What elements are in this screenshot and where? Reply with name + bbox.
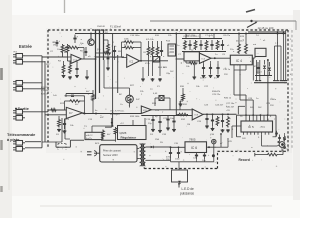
wire ic5 pin drops (246, 115, 268, 121)
resistor R11 (156, 46, 159, 56)
resistor R16 (186, 61, 198, 64)
svg-text:IC 6: IC 6 (191, 146, 197, 150)
terminal bars (255, 80, 287, 82)
wire ic4 route 3 (252, 58, 254, 81)
node rail top 2 (99, 29, 101, 31)
svg-text:sch régler: sch régler (110, 113, 120, 116)
svg-text:puissance: puissance (180, 192, 194, 196)
node rail join (95, 33, 101, 35)
capacitor C9b (202, 61, 205, 74)
dashed enclosure notch right (217, 151, 219, 168)
capacitor C19b (175, 147, 181, 160)
transformer TR1 (140, 143, 146, 166)
svg-text:12-15 ou 220: 12-15 ou 220 (258, 26, 274, 30)
capacitor C9 feedback (71, 95, 74, 96)
led D7 loop (172, 170, 188, 183)
svg-text:7805: 7805 (189, 138, 196, 142)
scan artifact fold top (64, 0, 66, 13)
op-amp U4 (66, 107, 82, 118)
wire q1 top (90, 33, 92, 39)
svg-text:100n: 100n (175, 159, 181, 161)
svg-text:Vers K7 Pistes: Vers K7 Pistes (110, 110, 125, 113)
svg-text:4k7 4k7: 4k7 4k7 (236, 41, 244, 43)
ground input stage 3 (75, 75, 79, 78)
capacitor C8 (256, 62, 259, 74)
scan artifact page edge 3 (0, 186, 2, 192)
wire left bus A (41, 57, 43, 147)
wire harness top link (275, 45, 282, 47)
wire filter rail taps (186, 34, 214, 39)
ground q1 (85, 70, 89, 79)
capacitor C7b (221, 40, 224, 50)
resistor R5 (69, 64, 72, 74)
connector J4 aux lower (13, 87, 25, 92)
ground ic3 (192, 76, 196, 79)
wire ps bottom drop (178, 162, 180, 170)
connector J8 telecommande lower (13, 147, 25, 152)
ground u6 3 (221, 129, 225, 132)
wire secondary top (145, 146, 160, 148)
wire u4 out (83, 113, 142, 115)
wire ic6 out (207, 146, 217, 148)
node rail top 1 (95, 29, 97, 31)
svg-text:C12 4u7: C12 4u7 (41, 90, 50, 92)
dashed enclosure top edge (48, 29, 288, 31)
ground c9c (209, 75, 213, 78)
resistor R6b (104, 40, 110, 53)
capacitor C17 (221, 114, 224, 127)
wire stage1 to stage2 (96, 56, 125, 58)
transistor Q3 (277, 141, 286, 149)
svg-text:4o47c: 4o47c (86, 138, 93, 140)
ground input stage 1 (62, 75, 66, 78)
capacitor C12 (172, 116, 175, 129)
wire u2 feedback loop (122, 42, 142, 61)
wire aux lower (25, 88, 45, 90)
resistor R7 feedback (124, 46, 135, 49)
ground c9b (202, 75, 206, 78)
label u6 caps (204, 105, 224, 107)
wire left bus B (44, 61, 46, 142)
svg-text:+9V: +9V (228, 141, 232, 143)
svg-text:1000u: 1000u (270, 99, 277, 101)
node u4 out (84, 113, 114, 115)
wire regulator left (105, 118, 113, 127)
wire u6 out (203, 113, 237, 115)
label vers k7 (110, 110, 125, 117)
wire sortie to amp (45, 114, 66, 116)
resistor R18 (245, 34, 248, 55)
capacitor C20 (195, 153, 198, 160)
resistor R32 (114, 127, 117, 142)
op-amp U2 (127, 54, 140, 67)
label regulator 78xx (118, 126, 147, 140)
wire drop x65 (65, 118, 70, 139)
wire mains to transformer (137, 149, 139, 159)
wire q2 top (104, 60, 130, 95)
label u4 texts (41, 87, 50, 95)
resistor R14 (205, 40, 208, 50)
ground c4b (106, 67, 110, 70)
wire long drop x176 (175, 34, 177, 116)
capacitor C5 (188, 40, 191, 50)
resistor R1 (61, 44, 64, 54)
ground c12 (172, 129, 176, 132)
wire u2 out (140, 60, 168, 62)
capacitor C9d (216, 61, 219, 74)
node ic6 out (208, 146, 210, 148)
node u2 out (140, 60, 142, 62)
svg-text:F1 100mA: F1 100mA (110, 25, 121, 28)
wire secondary bottom (145, 159, 170, 161)
resistor R15 (216, 40, 219, 50)
wire filter top (182, 38, 222, 40)
capacitor C13 (151, 116, 154, 129)
diode D1 (263, 60, 266, 75)
ground c9d (216, 75, 220, 78)
label LED arrow (178, 183, 180, 188)
svg-text:2200P: 2200P (200, 78, 207, 80)
label c11 (163, 118, 174, 120)
relay K1 (168, 44, 176, 56)
label r17 (236, 41, 244, 43)
node ps bottom blob (212, 154, 215, 157)
ground u4 2 (63, 130, 67, 133)
svg-text:W02: W02 (256, 72, 261, 74)
svg-text:C10 1u: C10 1u (223, 69, 231, 71)
scan tone wash (46, 28, 292, 170)
ic opto box B1 (85, 132, 102, 140)
wire record left (255, 153, 267, 157)
connector output jack (212, 139, 216, 147)
wire drop x62 (61, 118, 63, 142)
svg-text:IC 4: IC 4 (236, 59, 242, 63)
capacitor C21 (203, 153, 206, 160)
wire ic4 route 1 (234, 70, 246, 115)
svg-text:C16 100n: C16 100n (130, 35, 140, 37)
ground u2 stage 2 (151, 78, 155, 81)
resistor R22 sortie (50, 109, 57, 112)
svg-text:a4LC2: a4LC2 (86, 135, 93, 137)
ground u2 stage 3 (158, 78, 162, 81)
wire ic6 plus rail (216, 133, 228, 147)
wire harness 1 (256, 60, 258, 81)
transistor Q2 (126, 95, 134, 103)
mains box (100, 145, 137, 162)
label right texts (253, 43, 279, 47)
capacitor C2 (75, 64, 78, 74)
wire u5 out (151, 109, 192, 111)
capacitor C9c (209, 61, 212, 74)
resistor R20 (58, 116, 61, 128)
capacitor C19 (165, 147, 172, 158)
resistor R6 (96, 52, 111, 55)
wire q2 bottom (129, 103, 131, 108)
node sortie bullet (15, 108, 17, 110)
wire u1 out (82, 58, 97, 60)
svg-text:25V: 25V (166, 159, 170, 161)
resistor R31 record (267, 153, 279, 156)
capacitor C6 (199, 40, 202, 50)
scan artifact page edge 2 (0, 140, 2, 150)
resistor R10 (151, 46, 154, 56)
svg-text:Prise de courant: Prise de courant (103, 149, 121, 152)
resistor R26 (182, 88, 185, 101)
capacitor C4b (107, 53, 110, 67)
capacitor C15 (205, 114, 208, 123)
node r17 rail (238, 33, 247, 35)
wire mains feed (150, 20, 296, 22)
resistor R27 (176, 113, 188, 116)
label 7805 (189, 138, 196, 142)
svg-text:R34 47k: R34 47k (212, 91, 221, 93)
capacitor C7 (210, 40, 213, 50)
svg-text:47k 10k: 47k 10k (146, 39, 155, 41)
ic IC5 (241, 121, 273, 132)
scan artifact page edge 1 (0, 68, 3, 80)
label Entree (19, 44, 32, 49)
svg-text:1M: 1M (187, 124, 190, 126)
svg-text:C27 10n: C27 10n (226, 103, 235, 105)
resistor R30 (283, 133, 286, 142)
label LED de (182, 187, 194, 191)
scan artifact diagonal (246, 10, 255, 13)
capacitor C4c (113, 46, 116, 60)
svg-text:Secteur 220V: Secteur 220V (103, 154, 118, 157)
wire sortie upper to amp (48, 109, 66, 111)
resistor R28 (216, 116, 219, 126)
ic IC4b aux box (255, 48, 266, 56)
svg-text:C7 4n7: C7 4n7 (205, 35, 213, 37)
label c9b (200, 78, 218, 80)
wire long drop x268 (267, 59, 269, 115)
wire rail drop 2 (99, 30, 101, 94)
svg-text:1M: 1M (53, 45, 56, 47)
diode D5 (151, 146, 154, 149)
wire telecommande lower (25, 146, 42, 149)
ground r26 (179, 101, 183, 106)
label puissance (180, 192, 194, 196)
svg-text:R24 22k: R24 22k (41, 87, 50, 89)
wire sortie upper (25, 110, 48, 112)
ground u6 2 (211, 126, 215, 131)
node harness (277, 33, 285, 35)
wire harness 5 (280, 46, 282, 81)
wire diode bottom (255, 75, 272, 77)
label a piste (7, 137, 20, 142)
node x176 top (175, 33, 177, 35)
svg-text:C8 47n: C8 47n (223, 35, 231, 37)
label mains voltage (258, 26, 274, 30)
dashed enclosure notch left (143, 163, 145, 169)
svg-text:R17 220k: R17 220k (186, 35, 196, 37)
resistor R12 (184, 40, 187, 50)
wire ic4 route 2 (240, 70, 253, 115)
wire top right corner (248, 31, 286, 33)
wire u4 top link (66, 94, 93, 98)
op-amp U6 (192, 109, 203, 120)
capacitor C16 (211, 114, 214, 126)
svg-text:25V: 25V (224, 74, 228, 76)
resistor R4 (62, 64, 65, 74)
capacitor C31 (272, 131, 278, 137)
svg-text:HG: HG (14, 52, 18, 54)
connector J7 telecommande (13, 141, 41, 146)
wire ic5 down (262, 135, 277, 146)
crystal X1 (155, 96, 170, 110)
svg-text:+5V: +5V (226, 110, 230, 112)
connector J3 aux upper (13, 81, 25, 86)
svg-text:R40 4k7: R40 4k7 (226, 106, 235, 108)
resistor R19 feedback (69, 100, 81, 103)
svg-text:+9(C): +9(C) (260, 126, 266, 128)
wire r4 top (64, 61, 78, 64)
wire ic3 out (211, 57, 230, 59)
label J1 (14, 52, 18, 54)
wire long drop x112 (112, 34, 114, 127)
value labels scatter (46, 26, 292, 145)
svg-text:Entrée: Entrée (19, 44, 32, 49)
resistor R17 (238, 34, 241, 55)
ground c11 (166, 127, 170, 130)
op-amp U1 (71, 54, 82, 63)
ground u4 1 (57, 129, 61, 132)
capacitor C18 (278, 135, 281, 142)
ic IC3 box (184, 52, 199, 61)
wire aux upper (25, 82, 42, 84)
wire ic3 gnd (193, 63, 195, 76)
label Telecommande (7, 132, 36, 137)
wire rail drop 3 (103, 30, 105, 61)
dashed detail telecommande (58, 144, 66, 151)
label R1 value (53, 42, 57, 47)
node rail top 3 (103, 29, 105, 31)
connector J5 sortie (13, 110, 25, 115)
svg-text:IC2: IC2 (130, 61, 134, 64)
svg-text:25V: 25V (270, 105, 274, 107)
wire harness 4 (277, 34, 279, 81)
resistor R3 (65, 46, 79, 53)
label filter values (183, 36, 201, 38)
svg-text:IC 5: IC 5 (248, 125, 254, 129)
wire telecommande staircase (56, 140, 116, 147)
label ic5 left (226, 103, 235, 112)
wire regulator top (133, 118, 145, 126)
wire entree upper to bus (25, 56, 42, 57)
label Sortie (18, 106, 30, 111)
dashed enclosure left edge (47, 30, 49, 149)
svg-text:R36 1k: R36 1k (224, 97, 232, 99)
op-amp U3 (199, 53, 211, 63)
svg-text:1N4148: 1N4148 (97, 26, 105, 28)
wire q3 links (277, 145, 282, 151)
label r9 values (146, 39, 155, 41)
wire +V rail (75, 33, 286, 35)
label fuse (110, 25, 121, 28)
switch box S2 (153, 57, 160, 63)
ground u2 stage 1 (141, 67, 145, 81)
wire u1 feedback (79, 48, 84, 60)
ground c13 (151, 129, 155, 132)
wire r9 gnd (149, 56, 161, 76)
wire ic5 left link (232, 126, 241, 138)
svg-text:C25 22n: C25 22n (212, 94, 221, 96)
transistor Q1 (88, 35, 94, 45)
dashed border echo right (291, 30, 293, 150)
wire ic4b link (252, 57, 255, 59)
capacitor C2b (85, 47, 88, 56)
node mains junction (250, 20, 296, 30)
wire ic5 pin stubs (244, 132, 269, 135)
capacitor C14 (158, 116, 161, 130)
ground u6 4 (226, 129, 230, 132)
svg-text:Record: Record (239, 158, 250, 162)
diode D2 (268, 62, 271, 75)
svg-text:BC: BC (119, 94, 122, 96)
resistor R33 (102, 130, 105, 141)
wire r9 rail (149, 41, 162, 46)
svg-text:Sortie: Sortie (18, 106, 30, 111)
svg-text:16V: 16V (242, 138, 246, 140)
label pin4 (267, 118, 269, 122)
label quartz freq (153, 93, 158, 95)
wire drop bottom link (42, 141, 62, 143)
svg-text:R25 1k: R25 1k (41, 93, 49, 95)
capacitor C10 (63, 119, 66, 129)
wire c19 top (160, 146, 171, 148)
resistor R21 (92, 90, 95, 114)
svg-text:IC2a: IC2a (145, 63, 150, 65)
label Record (239, 158, 250, 162)
resistor R8 feedback (124, 41, 135, 44)
ic IC6 (185, 142, 207, 153)
capacitor C1 (73, 35, 78, 44)
plug P1 (87, 151, 100, 156)
dashed enclosure notch bottom (144, 168, 217, 170)
capacitor C3 (160, 46, 163, 56)
capacitor C0 (56, 40, 61, 47)
ground c14 (158, 130, 162, 133)
label u4 r (86, 91, 90, 93)
ic IC4 (230, 55, 252, 65)
wire harness 7 (285, 30, 287, 81)
scan noise speckles (50, 28, 289, 168)
node ic3 out (214, 57, 216, 59)
resistor R9 (147, 46, 150, 56)
wire b1 top (92, 125, 114, 132)
svg-text:Régulateur: Régulateur (121, 136, 138, 140)
wire u1 in upper (63, 54, 72, 58)
wire mid bus (141, 115, 192, 117)
svg-text:L.E.D de: L.E.D de (182, 187, 194, 191)
resistor R29 (227, 116, 230, 128)
wire harness 2 (259, 60, 261, 81)
wire k1 out (176, 58, 185, 60)
wire harness 3 (274, 46, 276, 81)
switch S1 (247, 22, 258, 28)
wire filter bottom (182, 51, 226, 53)
label c20 (193, 158, 206, 163)
ground u6 1 (205, 124, 209, 129)
wire u4 feedback loop (65, 96, 85, 113)
wire entree to amp (42, 56, 68, 58)
node u6 out dots (206, 113, 229, 115)
dashed enclosure bottom edge right (218, 150, 289, 152)
wire ic4 pins (234, 65, 246, 70)
svg-text:C24 4n7: C24 4n7 (215, 105, 224, 107)
wire harness bottom bar (254, 82, 287, 84)
wire drop x180 (180, 101, 183, 110)
